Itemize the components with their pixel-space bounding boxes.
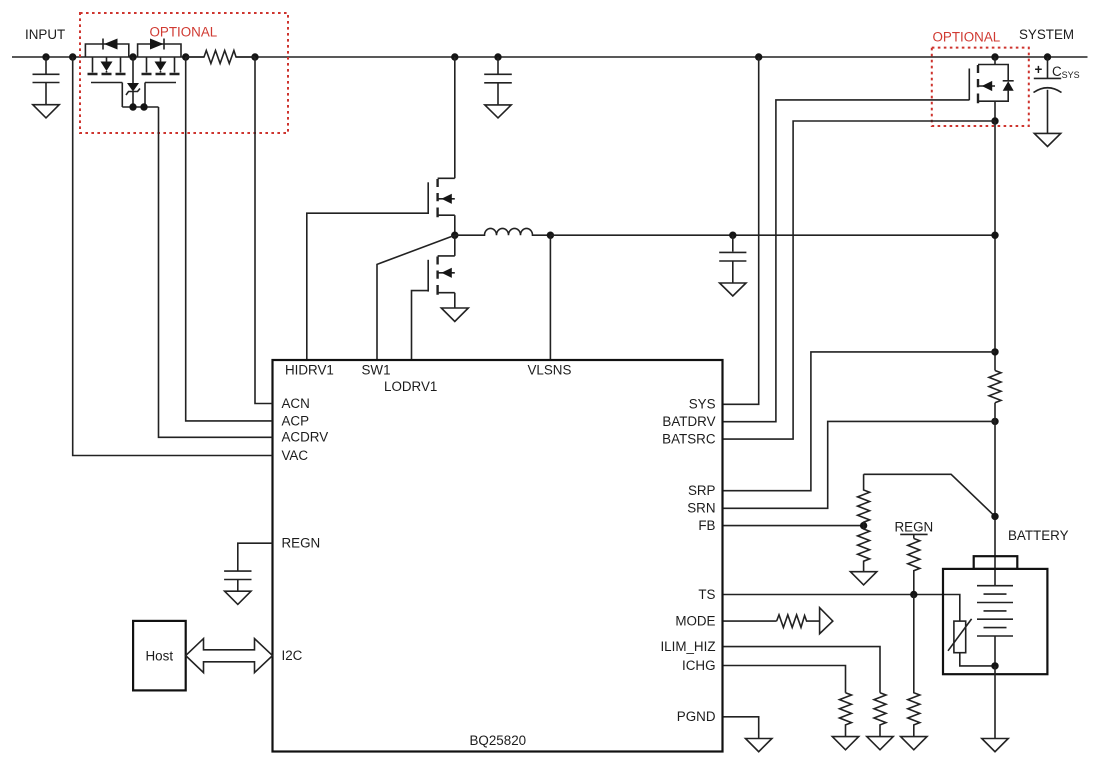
wire converter output to battery line <box>550 234 995 236</box>
node switch node SW <box>451 232 458 239</box>
ground CSYS <box>1034 133 1060 146</box>
wire gate tie Q1 <box>121 83 123 108</box>
ground output cap <box>720 283 746 296</box>
node CSYS tap <box>1044 53 1051 60</box>
transistor Q4 buck low-side NFET <box>428 235 455 308</box>
transistor Q3 buck high-side NFET <box>428 57 455 235</box>
zener D3 gate protection <box>126 57 140 107</box>
node gate bus A <box>129 103 136 110</box>
wire LODRV1 to Q4 gate <box>412 291 429 360</box>
ground input cap <box>33 105 59 118</box>
svg-text:SRN: SRN <box>687 501 715 516</box>
svg-text:REGN: REGN <box>282 536 321 551</box>
ground REGN cap <box>225 591 251 604</box>
svg-text:PGND: PGND <box>677 709 716 724</box>
wire ACDRV pin to FET gates <box>159 107 273 437</box>
node TS junction <box>910 591 917 598</box>
svg-text:SRP: SRP <box>688 483 716 498</box>
svg-text:ILIM_HIZ: ILIM_HIZ <box>660 639 715 654</box>
optional input FET block dashed box <box>80 13 288 133</box>
node FB top battery junction <box>991 513 998 520</box>
node inductor output <box>547 232 554 239</box>
svg-text:SYSTEM: SYSTEM <box>1019 27 1074 42</box>
node FB divider tap <box>860 522 867 529</box>
inductor L1 <box>455 228 551 235</box>
thermistor RT1 <box>948 619 995 666</box>
svg-text:ACN: ACN <box>282 396 310 411</box>
svg-text:OPTIONAL: OPTIONAL <box>933 30 1001 45</box>
transistor Q5 BATFET <box>969 57 995 121</box>
wire BATSRC to Q5 source <box>724 121 996 439</box>
resistor R7 MODE <box>777 615 820 628</box>
wire gate tie Q2 <box>144 83 146 108</box>
ground FB lower <box>850 572 876 585</box>
battery cell stack BT1 <box>977 586 1013 666</box>
wire FB pin <box>724 525 864 527</box>
node mid cap tap <box>494 53 501 60</box>
resistor R3 FB upper <box>858 474 870 525</box>
resistor R5 TS pullup <box>908 539 920 595</box>
capacitor CSYS polarized <box>1034 57 1062 133</box>
wire SYS pin to rail <box>724 57 759 404</box>
wire ACP pin to rail <box>186 57 273 421</box>
svg-text:LODRV1: LODRV1 <box>384 379 437 394</box>
ground Q4 source <box>441 308 468 322</box>
node HS FET drain tap <box>451 53 458 60</box>
wire SW1 pin to switch node <box>377 235 455 360</box>
node FET common rail center <box>129 53 136 60</box>
battery pack box <box>943 569 1047 674</box>
wire ILIM_HIZ pin <box>724 647 881 693</box>
wire MODE pin <box>724 620 777 622</box>
capacitor output C3 <box>719 235 746 283</box>
node BATFET source <box>991 117 998 124</box>
ground PGND <box>746 739 772 752</box>
ground mid cap <box>485 105 511 118</box>
resistor R2 battery current sense <box>989 371 1001 403</box>
svg-text:FB: FB <box>698 518 715 533</box>
node sense resistor top <box>991 348 998 355</box>
node SYS sense tap <box>755 53 762 60</box>
wire TS pin <box>724 595 960 622</box>
optional BATFET dashed box <box>932 48 1029 126</box>
ground battery <box>982 739 1008 752</box>
power REGN rail bar <box>900 534 927 538</box>
svg-text:+: + <box>1035 62 1043 77</box>
arrow MODE select <box>820 608 833 634</box>
wire battery negative to ground <box>994 666 996 738</box>
svg-text:ACDRV: ACDRV <box>282 430 329 445</box>
arrow I2C bidirectional <box>186 639 273 673</box>
wire VLSNS pin <box>549 235 551 360</box>
svg-text:BATDRV: BATDRV <box>662 414 715 429</box>
wire REGN pin to bypass cap <box>238 543 273 570</box>
svg-text:ACP: ACP <box>282 413 310 428</box>
wire SRN <box>724 421 996 508</box>
wire top input/system rail <box>12 56 1088 58</box>
capacitor REGN bypass C4 <box>224 571 251 591</box>
svg-text:VLSNS: VLSNS <box>528 363 572 378</box>
wire BATDRV to Q5 gate <box>724 100 970 422</box>
svg-text:TS: TS <box>698 587 715 602</box>
svg-text:BQ25820: BQ25820 <box>470 733 527 748</box>
node VAC tap <box>69 53 76 60</box>
svg-text:BATSRC: BATSRC <box>662 432 716 447</box>
resistor R8 ILIM <box>874 693 886 737</box>
svg-text:REGN: REGN <box>895 520 934 535</box>
node sense resistor bottom <box>991 418 998 425</box>
svg-text:I2C: I2C <box>282 648 303 663</box>
node gate bus B <box>140 103 147 110</box>
svg-text:INPUT: INPUT <box>25 27 65 42</box>
wire SRP <box>724 352 996 491</box>
wire battery line upper <box>994 121 996 371</box>
svg-text:BATTERY: BATTERY <box>1008 528 1069 543</box>
wire VAC pin to rail <box>73 57 273 456</box>
wire common gate bus <box>122 106 158 108</box>
wire HIDRV1 to Q3 gate <box>307 213 428 360</box>
node output cap tap <box>729 232 736 239</box>
node ACP tap <box>182 53 189 60</box>
svg-text:VAC: VAC <box>282 448 309 463</box>
node input cap tap <box>42 53 49 60</box>
svg-text:Host: Host <box>146 648 174 663</box>
svg-text:SYS: SYS <box>689 397 716 412</box>
resistor R1 on rail <box>186 51 255 64</box>
wire ACN pin to rail <box>255 57 273 404</box>
diode Q5 body diode (points up) <box>995 65 1014 102</box>
resistor R4 FB lower <box>858 526 870 572</box>
capacitor mid rail C2 <box>484 57 512 105</box>
resistor R9 ICHG <box>840 693 852 737</box>
node converter output junction <box>991 232 998 239</box>
node ACN tap <box>251 53 258 60</box>
svg-text:ICHG: ICHG <box>682 658 715 673</box>
battery pack terminal tab <box>974 556 1018 569</box>
ground R6 <box>901 737 927 750</box>
node battery negative <box>991 662 998 669</box>
svg-text:MODE: MODE <box>675 614 715 629</box>
Host controller box <box>133 621 186 691</box>
ground R9 <box>832 737 858 750</box>
ground R8 <box>867 737 893 750</box>
resistor R6 TS pulldown <box>908 595 920 737</box>
transistor Q2 input blocking NFET <box>142 57 180 83</box>
diode D2 bypass of Q2 (points right) <box>138 39 181 58</box>
svg-text:SW1: SW1 <box>362 363 391 378</box>
op-amp U1 charger IC BQ25820 box <box>273 360 723 752</box>
wire FB top to battery node <box>864 474 995 516</box>
capacitor input C1 <box>33 57 60 105</box>
svg-text:OPTIONAL: OPTIONAL <box>150 25 218 40</box>
node BATFET drain tap <box>991 53 998 60</box>
wire PGND pin <box>724 717 759 739</box>
wire battery line mid <box>994 403 996 586</box>
transistor Q1 input blocking NFET <box>88 57 126 83</box>
svg-text:HIDRV1: HIDRV1 <box>285 363 334 378</box>
diode D1 bypass of Q1 (points left) <box>85 39 128 58</box>
wire ICHG pin <box>724 666 846 693</box>
